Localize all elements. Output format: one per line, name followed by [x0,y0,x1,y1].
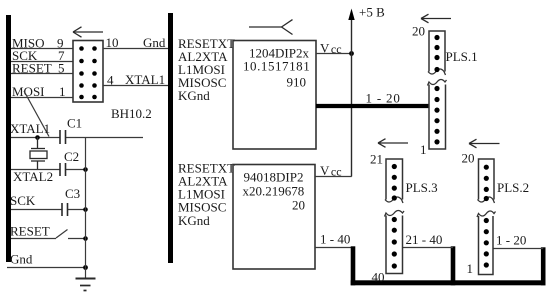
cable screen bar (left) [6,15,11,262]
svg-text:1: 1 [59,84,66,99]
svg-text:C2: C2 [64,149,79,164]
connector PLS.1 lower break squiggle [428,80,447,86]
svg-text:20: 20 [462,150,475,165]
svg-text:40: 40 [372,270,385,285]
wire Vcc of DD2 [315,176,352,178]
connector PLS.1 upper body [429,31,445,72]
wire ground rail vertical [85,137,87,279]
capacitor C2 [60,163,66,176]
svg-text:BH10.2: BH10.2 [111,106,152,121]
svg-text:RESET: RESET [12,61,52,76]
svg-text:KGnd: KGnd [178,88,210,103]
wire XTAL2 after C2 [66,169,86,171]
svg-text:SCK: SCK [10,193,36,208]
bus riser to PLS.3 [451,246,456,285]
svg-text:1 - 20: 1 - 20 [496,233,526,248]
leader line (diagonal) [24,91,49,137]
node RESET junction [83,236,88,241]
connector PLS.2 lower break squiggle [477,211,496,217]
wire MOSI (pin 1) [11,97,73,99]
capacitor C1 [60,130,66,144]
arrow above DD1 (reversed open head) [249,20,293,35]
wire XTAL1 [11,137,60,139]
ground symbol [76,279,96,291]
node Vcc junction [349,51,354,56]
svg-text:C3: C3 [65,186,80,201]
pin labels of DD1 (left side) [178,36,235,103]
power arrow head +5 V [348,9,354,21]
svg-text:Vcc: Vcc [320,41,342,57]
wire XTAL1 after C1 [66,137,144,139]
connector PLS.2 upper break squiggle [478,197,495,203]
connector PLS.2 lower contacts [484,218,489,268]
connector PLS.2 upper body [479,159,495,200]
svg-text:1 - 20: 1 - 20 [366,91,401,106]
node XTAL2 junction [83,167,88,172]
connector PLS.3 upper contacts [392,164,397,201]
svg-text:x20.219678: x20.219678 [243,184,305,199]
bus 1-20 from DD1 to PLS.1 [316,104,429,108]
wire RESET (pin 5) [11,73,73,75]
pin labels of DD2 (left side) [178,161,235,228]
connector BH10.2 body [73,41,103,103]
wire SCK (pin 7) [11,61,73,63]
arrow above PLS.2 [469,139,500,148]
arrow above PLS.1 [421,14,451,23]
wire SCK lower [11,209,62,211]
connector PLS.1 lower contacts [434,86,439,145]
switch blade SA1 [56,230,68,239]
svg-text:Vcc: Vcc [320,163,342,179]
node Gnd junction [83,265,88,270]
svg-text:21: 21 [370,151,383,166]
svg-text:1: 1 [467,261,474,276]
svg-text:10.1517181: 10.1517181 [243,59,310,74]
svg-text:20: 20 [292,198,305,213]
svg-text:KGnd: KGnd [178,213,210,228]
svg-text:910: 910 [287,74,307,89]
arrow above PLS.3 [378,139,408,148]
connector PLS.2 upper contacts [484,165,489,202]
arrow above connector XP1 (pointing left) [73,27,103,37]
wire XTAL2 [11,169,60,171]
connector PLS.3 lower break squiggle [385,211,405,217]
svg-text:XTAL2: XTAL2 [13,169,53,184]
connector BH10.2 contacts (2x5 dots) [79,46,97,99]
svg-text:PLS.1: PLS.1 [446,49,478,64]
IC DD2 body [233,165,315,270]
node SCK junction [83,207,88,212]
svg-text:Gnd: Gnd [143,35,166,50]
wire Vcc of DD1 [316,53,352,55]
capacitor C3 [62,203,68,216]
wire pin 10 to Gnd [103,48,168,50]
svg-text:XTAL1: XTAL1 [10,121,50,136]
wire RESET after switch [68,238,85,240]
connector PLS.3 upper break squiggle [385,197,403,203]
svg-text:94018DIP2: 94018DIP2 [244,170,304,185]
connector PLS.3 upper body [386,159,403,200]
connector PLS.3 lower contacts [392,217,397,269]
svg-text:10: 10 [106,35,119,50]
bus riser to PLS.2 [541,247,546,285]
crystal ZQ1 [30,137,47,170]
wire Gnd lower [7,267,85,269]
svg-text:C1: C1 [67,116,82,131]
svg-text:MOSI: MOSI [12,84,45,99]
svg-text:+5 В: +5 В [359,5,385,20]
svg-text:XTAL1: XTAL1 [125,72,165,87]
svg-text:PLS.3: PLS.3 [406,180,438,195]
node XTAL1 junction [35,135,40,140]
wire 1-40 from DD2 [315,247,353,249]
svg-text:4: 4 [107,72,114,87]
svg-text:5: 5 [58,61,65,76]
svg-text:21 - 40: 21 - 40 [406,232,443,247]
IC DD1 body [233,41,316,150]
svg-text:PLS.2: PLS.2 [497,180,529,195]
wire pin 4 to XTAL1 [103,85,168,87]
connector PLS.3 lower body [386,216,403,274]
connector PLS.1 lower body [429,85,446,150]
svg-text:Gnd: Gnd [10,252,33,267]
wire MISO (pin 9) [11,48,73,50]
connector PLS.1 upper break squiggle [428,69,446,75]
bus riser at DD2 [351,246,356,285]
svg-text:1 - 40: 1 - 40 [320,232,350,247]
svg-text:RESET: RESET [10,224,50,239]
wire 1-20 to PLS.2 [493,248,543,250]
svg-text:20: 20 [412,24,425,39]
power rail +5 V [351,16,353,177]
connector PLS.1 upper contacts [434,35,439,72]
cable screen bar (middle) [168,13,173,263]
bus bottom run [351,280,546,285]
wire SCK after C3 [68,209,86,211]
connector PLS.2 lower body [479,216,494,275]
wire RESET lower [11,238,56,240]
svg-text:1: 1 [420,142,427,157]
wire 21-40 to PLS.3 [403,247,454,249]
